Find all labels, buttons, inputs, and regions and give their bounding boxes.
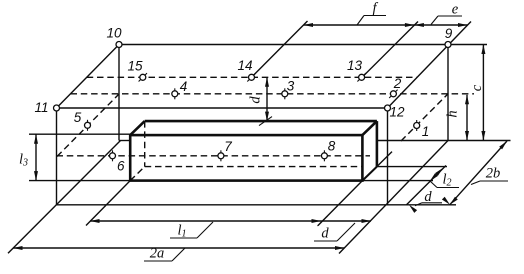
svg-text:11: 11: [34, 100, 48, 115]
node 12: measurement point 12: [385, 105, 405, 120]
node 10: measurement point 10: [106, 26, 122, 48]
label 2b with leader: [471, 166, 508, 185]
svg-text:15: 15: [127, 59, 143, 74]
svg-text:12: 12: [389, 105, 405, 120]
label c (rotated): [469, 84, 485, 91]
node 9: measurement point 9: [445, 26, 453, 48]
wire: dashed row through points 15,14,13: [87, 76, 417, 78]
wire: vertical from 11 down to plate front corner: [56, 108, 58, 205]
box top rear edge: [145, 120, 377, 123]
svg-text:7: 7: [224, 139, 232, 154]
label d bottom-right with leader: [415, 189, 442, 206]
wire: box bottom edge extension left for dim l3: [29, 180, 130, 182]
node 15: measurement point 15: [127, 59, 147, 82]
wire: dashed diagonal through point 1: [401, 94, 448, 142]
svg-text:e: e: [452, 2, 459, 18]
wire: dashed diagonal through point 5: [57, 94, 119, 157]
wire: vertical from 12 down to plate front corner: [387, 108, 389, 205]
svg-text:c: c: [469, 84, 485, 91]
wire: extension diagonal from box front-bottom-right corner to l1/d: [318, 181, 362, 226]
wire: box top edge extension left for dim l3: [29, 133, 130, 135]
dimension 2a line with arrows: [13, 246, 345, 250]
wire: diagonal tail beyond box rear bottom corner: [377, 152, 392, 167]
node 8: measurement point 8: [321, 138, 335, 161]
wire: plane front line 11-12: [57, 107, 388, 109]
node 1: measurement point 1: [414, 120, 430, 139]
box top right receding edge: [362, 121, 377, 135]
dimension e line with arrows: [414, 23, 467, 27]
wire: plate left edge extended down for dim 2a: [8, 141, 121, 254]
svg-text:4: 4: [180, 79, 188, 94]
svg-text:6: 6: [117, 159, 125, 174]
svg-text:9: 9: [445, 26, 453, 41]
wire: plate rear edge right part extended for dim 2b: [377, 140, 511, 142]
svg-text:5: 5: [74, 110, 82, 125]
dimension d (bottom right) arrows: [409, 197, 450, 213]
box hidden bottom left receding edge (dashed): [130, 167, 145, 181]
dimension h line with arrows: [465, 95, 469, 141]
wire: top rear line 10-9 extended right (extension for dim c): [119, 44, 487, 46]
wire: extension diagonal from point 13 up to dim f/e: [362, 22, 418, 78]
wire: plate front edge extended right for dim d: [57, 204, 457, 206]
wire: vertical from 10 down to plate rear corner: [118, 45, 120, 141]
box hidden rear left vertical edge (dashed): [144, 121, 146, 167]
svg-text:h: h: [445, 110, 461, 117]
dimension f line with arrows: [304, 23, 415, 27]
dimension l3 line with arrows: [34, 134, 38, 180]
node 11: measurement point 11: [34, 100, 59, 115]
node 4: measurement point 4: [172, 79, 187, 99]
label l2 with leader: [430, 172, 459, 189]
svg-text:10: 10: [106, 26, 122, 41]
label d top (rotated): [248, 96, 264, 104]
wire: plane left edge 11-10: [57, 45, 120, 109]
node 5: measurement point 5: [74, 110, 91, 131]
label 2a with leader: [144, 246, 185, 262]
box bottom right receding edge: [362, 167, 377, 181]
dimension l2 diagonal line with arrows: [407, 166, 447, 205]
wire: extension diagonal from box front-bottom-left corner to l1: [86, 181, 130, 226]
wire: plate rear edge (left stub): [119, 140, 130, 142]
node 13: measurement point 13: [347, 58, 366, 82]
box top left receding edge: [130, 121, 145, 135]
label f with leader: [357, 1, 386, 26]
box front face outline: [130, 135, 362, 181]
wire: dashed row through points 6,7,8: [57, 155, 371, 157]
label l1 with leader: [170, 222, 213, 240]
node 7: measurement point 7: [218, 139, 232, 161]
label e with leader: [431, 2, 462, 25]
wire: dashed row through points 4,3,2 extended right for dim h: [71, 93, 475, 95]
wire: box rear bottom edge extension right for dim l2: [377, 166, 447, 168]
label h (rotated): [445, 110, 461, 117]
node 2: measurement point 2: [389, 76, 402, 98]
dimension l1 line with arrows and boundary tick: [90, 216, 328, 226]
svg-text:3: 3: [287, 78, 295, 93]
dimension 2b diagonal line with arrows: [450, 141, 507, 205]
svg-text:2a: 2a: [150, 246, 165, 262]
wire: plane right edge 12-9 extended up for dim e: [388, 22, 472, 109]
svg-text:2: 2: [393, 76, 402, 91]
node 3: measurement point 3: [282, 78, 295, 99]
label l3: [19, 152, 28, 169]
wire: extension diagonal from point 14 up to dim f: [252, 21, 308, 77]
dimension d (bottom left) line with arrow: [323, 219, 372, 223]
node 14: measurement point 14: [237, 58, 255, 82]
dimension c line with arrows: [481, 45, 485, 141]
svg-text:d: d: [248, 96, 264, 104]
svg-text:8: 8: [328, 138, 336, 153]
node 6: measurement point 6: [110, 150, 126, 173]
wire: box bottom edge extension right for dim l2: [362, 180, 433, 182]
label d bottom-left with leader: [314, 223, 355, 242]
dimension d (top) line with arrows and tick: [259, 77, 272, 125]
svg-text:13: 13: [347, 58, 363, 73]
svg-text:14: 14: [237, 58, 252, 73]
svg-text:d: d: [321, 226, 329, 242]
box hidden rear bottom edge (dashed): [145, 166, 363, 168]
svg-text:2b: 2b: [486, 166, 501, 182]
wire: plate right edge extended down for dim d: [339, 141, 448, 254]
box rear right vertical edge: [376, 121, 379, 167]
wire: vertical from 9 down to plate rear corner: [447, 45, 449, 141]
svg-text:1: 1: [422, 124, 430, 139]
